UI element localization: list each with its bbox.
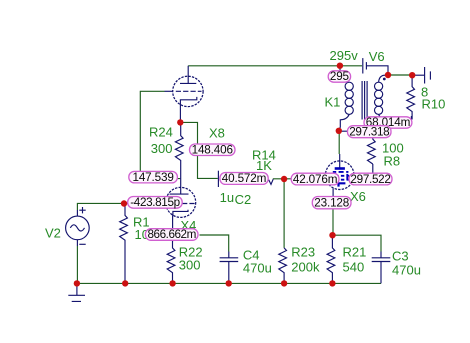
rail dot C4 bbox=[226, 280, 232, 286]
V2 body circle bbox=[66, 216, 90, 240]
wire: node to node at top right bbox=[388, 74, 412, 76]
resistor R23 bbox=[279, 248, 287, 284]
svg-text:C3: C3 bbox=[392, 249, 409, 264]
transformer K1 secondary winding bbox=[375, 82, 383, 114]
X4 cathode bbox=[173, 210, 188, 242]
sine source V2 bbox=[66, 207, 90, 246]
V2 plus sign bbox=[79, 207, 85, 213]
wire: R8 top link (under box) bbox=[339, 131, 373, 137]
X6 cathode pin bbox=[332, 188, 334, 196]
svg-text:295: 295 bbox=[330, 70, 350, 83]
value box 297.522 bbox=[349, 173, 392, 186]
wire: battery to secondary-top junction bbox=[366, 66, 388, 75]
wire: node 297.318 down to X6 plate bbox=[338, 131, 340, 154]
battery V6 bbox=[362, 58, 364, 73]
value box -423.815p bbox=[128, 196, 183, 209]
value box 42.076m bbox=[291, 173, 339, 186]
triode X4 (lower left tube) bbox=[158, 183, 196, 241]
wire: plate of X8 to node 295 bbox=[188, 65, 362, 67]
svg-text:X8: X8 bbox=[209, 126, 225, 141]
wire: bottom ground rail bbox=[77, 282, 381, 284]
svg-text:470u: 470u bbox=[243, 261, 272, 276]
svg-text:470u: 470u bbox=[392, 263, 421, 278]
transformer K1 primary winding bbox=[345, 82, 353, 114]
svg-text:1K: 1K bbox=[256, 158, 272, 173]
X8 cathode bbox=[180, 97, 196, 123]
svg-text:C2: C2 bbox=[235, 192, 252, 207]
capacitor C3 bbox=[372, 252, 391, 284]
svg-text:540: 540 bbox=[343, 260, 365, 275]
svg-text:866.662m: 866.662m bbox=[148, 228, 196, 241]
rail dot R23 bbox=[281, 280, 287, 286]
svg-text:147.539: 147.539 bbox=[132, 171, 173, 184]
X6 grids bbox=[333, 172, 349, 180]
svg-text:297.318: 297.318 bbox=[349, 125, 389, 138]
value box 147.539 bbox=[129, 171, 178, 184]
node 42.076m dot bbox=[281, 176, 287, 182]
wire: X6 cathode below box bbox=[332, 209, 334, 235]
X6 plate bbox=[335, 167, 345, 170]
svg-text:1u: 1u bbox=[220, 190, 234, 205]
ground (bottom left) bbox=[68, 283, 85, 301]
svg-text:300: 300 bbox=[179, 258, 201, 273]
wire: X8 cathode to R24 and C2 bbox=[180, 122, 218, 178]
svg-text:V6: V6 bbox=[369, 49, 385, 64]
rail dot R21 bbox=[329, 280, 335, 286]
X8 grid pin bbox=[165, 90, 173, 92]
svg-text:R8: R8 bbox=[384, 154, 401, 169]
node X6 cathode dot bbox=[329, 232, 335, 238]
resistor R21 bbox=[327, 235, 335, 283]
node secondary top dot bbox=[385, 72, 391, 78]
svg-text:R24: R24 bbox=[149, 125, 173, 140]
wire: V2 bottom to rail bbox=[76, 246, 78, 283]
transformer K1 primary bottom lead bbox=[339, 114, 349, 130]
wire: cathode node to C3 bbox=[333, 235, 381, 251]
svg-text:23.128: 23.128 bbox=[314, 196, 349, 209]
X8 plate bbox=[180, 66, 196, 84]
ground (top right, rotated) bbox=[425, 67, 431, 84]
wire: 866 node to C4 bbox=[200, 235, 229, 252]
node 295 dot bbox=[337, 62, 343, 68]
value box 866.662m bbox=[145, 228, 198, 241]
capacitor C4 bbox=[220, 252, 239, 284]
svg-text:300: 300 bbox=[151, 141, 173, 156]
transformer K1 core bbox=[362, 81, 367, 120]
transformer K1 primary top lead bbox=[339, 66, 341, 71]
resistor R22 bbox=[167, 240, 175, 283]
wire: C2 right to node 42.076m bbox=[273, 178, 292, 180]
X4 grid pin bbox=[158, 203, 166, 205]
svg-text:297.522: 297.522 bbox=[350, 173, 390, 186]
capacitor C2 right curved plate bbox=[269, 179, 274, 184]
svg-text:R10: R10 bbox=[422, 97, 446, 112]
X4 grid bbox=[168, 203, 195, 205]
wire: node down to R23 bbox=[283, 179, 285, 248]
svg-text:200k: 200k bbox=[291, 260, 320, 275]
node X4 grid dot bbox=[121, 200, 127, 206]
svg-text:148.406: 148.406 bbox=[192, 144, 233, 157]
transformer K1 secondary bottom lead bbox=[379, 114, 412, 119]
rail dot R22 bbox=[169, 280, 175, 286]
X6 grid pin bbox=[318, 178, 326, 180]
svg-text:42.076m: 42.076m bbox=[293, 173, 337, 186]
resistor R8 bbox=[367, 137, 375, 164]
X6 screen tap bbox=[346, 174, 348, 180]
X6 cathode bbox=[339, 183, 346, 186]
wire: to right ground bbox=[412, 74, 424, 76]
triode X8 (top left tube) bbox=[165, 66, 204, 123]
transformer K1 secondary top lead bbox=[379, 75, 388, 82]
X4 plate bbox=[170, 183, 189, 194]
value box 23.128 bbox=[312, 196, 351, 209]
svg-text:295v: 295v bbox=[330, 48, 359, 63]
V2 sine symbol bbox=[70, 225, 84, 231]
svg-text:K1: K1 bbox=[325, 95, 341, 110]
value box 295 bbox=[328, 70, 350, 83]
svg-text:R21: R21 bbox=[343, 245, 367, 260]
X8 envelope bbox=[173, 76, 203, 106]
resistor R10 bbox=[407, 75, 415, 119]
svg-text:-423.815p: -423.815p bbox=[130, 196, 180, 209]
svg-text:V2: V2 bbox=[45, 226, 61, 241]
wire: node to X6 grid (under box) bbox=[292, 178, 327, 180]
value box 148.406 bbox=[190, 144, 236, 157]
V2 minus sign bbox=[79, 243, 85, 245]
X6 envelope bbox=[325, 161, 354, 190]
rail dot R1 bbox=[122, 280, 128, 286]
wire: grid node to X4 grid (under box) bbox=[124, 203, 166, 205]
transformer K1 phasing dot bbox=[383, 78, 386, 81]
node right ground dot bbox=[409, 72, 415, 78]
V2 leads bbox=[76, 210, 78, 246]
resistor R24 bbox=[175, 122, 183, 183]
pentode X6 (right tube) bbox=[318, 154, 354, 197]
resistor R1 bbox=[120, 204, 128, 284]
node 297.318 dot bbox=[336, 128, 342, 134]
svg-text:40.572m: 40.572m bbox=[222, 172, 266, 185]
node X8 cathode dot bbox=[177, 119, 183, 125]
value box 297.318 bbox=[348, 125, 392, 138]
svg-text:X6: X6 bbox=[350, 189, 366, 204]
X8 grid bbox=[176, 90, 202, 92]
wire: X8 grid feedback wire bbox=[140, 91, 180, 178]
X4 envelope bbox=[166, 187, 196, 217]
rail dot V2 bbox=[74, 280, 80, 286]
svg-text:R23: R23 bbox=[291, 245, 315, 260]
value box 40.572m bbox=[220, 172, 268, 185]
X6 plate pin bbox=[339, 154, 341, 168]
capacitor C2 left plate bbox=[217, 171, 219, 187]
wire: R8 bottom to X6 screen (under box) bbox=[353, 164, 372, 177]
value box 68.014m bbox=[364, 116, 412, 129]
wire: V2 plus to grid node bbox=[77, 203, 124, 210]
